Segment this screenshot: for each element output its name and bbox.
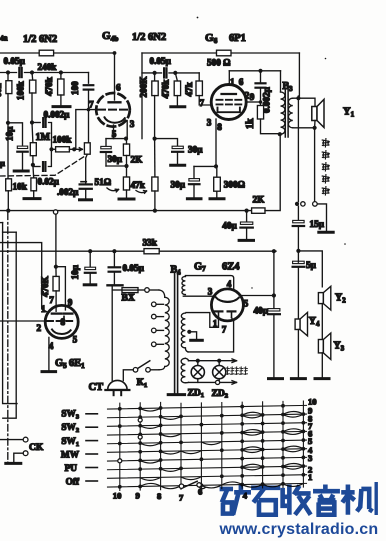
wire G5 cathode pin4	[48, 337, 50, 370]
wire left vertical b	[3, 232, 16, 418]
scan specks	[197, 17, 199, 19]
svg-text:0.02μ: 0.02μ	[38, 176, 60, 186]
resistor 470k (middle)	[175, 73, 177, 81]
wire top rail right segment	[142, 52, 299, 54]
svg-text:0.05μ: 0.05μ	[4, 56, 26, 66]
wire cathode net top	[106, 138, 127, 140]
svg-text:MW: MW	[61, 451, 80, 461]
6.3V winding	[181, 313, 185, 348]
svg-text:47k: 47k	[184, 81, 194, 96]
capacitor 30u-b	[172, 146, 183, 148]
op-amp G5 6E1 tuning indicator	[45, 305, 78, 338]
wire cathode net bottom	[106, 165, 127, 167]
svg-text:6Z4: 6Z4	[222, 262, 240, 273]
svg-text:47k: 47k	[131, 180, 146, 190]
watermark logo: blue CJK characters (drawn strokes)	[220, 485, 373, 515]
svg-text:4a: 4a	[0, 34, 8, 43]
resistor 10k	[7, 123, 9, 179]
wire bus B (B+ preamp)	[0, 250, 144, 252]
resistor 300 ohm	[216, 166, 218, 177]
svg-text:5: 5	[244, 299, 249, 309]
mechanical link dash-dot	[7, 213, 9, 466]
svg-text:40μ: 40μ	[254, 305, 269, 315]
resistor 100k-b	[31, 73, 34, 81]
ground CK	[6, 462, 21, 465]
svg-text:0.002μ: 0.002μ	[44, 109, 71, 119]
svg-text:200K: 200K	[139, 76, 149, 98]
svg-text:PU: PU	[65, 464, 78, 474]
ground 30u-b	[171, 164, 185, 167]
wire main right line	[298, 53, 300, 96]
svg-text:9: 9	[250, 92, 255, 102]
capacitor 5u	[293, 261, 305, 263]
ground 51 ohm	[119, 198, 134, 201]
svg-text:0.05μ: 0.05μ	[150, 56, 172, 66]
svg-text:CT: CT	[89, 382, 104, 393]
annotation: to tube heaters	[226, 367, 229, 375]
node B3 primary bottom	[278, 132, 282, 136]
dashed leader to pot	[0, 156, 85, 176]
resistor 1M	[31, 123, 34, 143]
svg-text:2: 2	[37, 323, 42, 333]
svg-text:7: 7	[200, 98, 205, 108]
ground 30u-c	[187, 197, 201, 200]
band switch matrix columns	[119, 403, 121, 490]
ground 470k	[171, 105, 185, 108]
primary taps	[152, 302, 157, 307]
ground Y2/Y3 line	[315, 377, 329, 380]
resistor 2K cathode	[123, 144, 129, 156]
svg-text:6: 6	[198, 486, 203, 496]
svg-text:1/2 6N2: 1/2 6N2	[132, 32, 166, 43]
svg-text:7: 7	[89, 100, 94, 110]
ground 40u-a	[239, 239, 253, 242]
capacitor .002u-b	[86, 154, 88, 183]
ground .002u	[80, 198, 92, 201]
svg-text:1k: 1k	[245, 118, 256, 129]
svg-text:51Ω: 51Ω	[95, 177, 112, 187]
lamp ZD1	[197, 361, 199, 366]
svg-text:3: 3	[208, 287, 213, 297]
svg-text:6: 6	[116, 82, 121, 92]
wire G4b plate drop pin6	[114, 53, 116, 100]
resistor 1k	[257, 106, 263, 120]
svg-text:5: 5	[112, 129, 117, 139]
wire B3 secondary bottom	[293, 127, 315, 129]
capacitor 0.05u line filter	[113, 251, 115, 266]
wire 6P1 cathode pins 3,8	[215, 119, 217, 166]
node screen feed	[153, 137, 157, 141]
svg-text:.002μ: .002μ	[57, 187, 79, 197]
svg-text:9: 9	[136, 491, 140, 501]
wire 6P1 plate pins 1,6	[228, 71, 230, 85]
svg-text:30μ: 30μ	[188, 145, 203, 155]
wire right rail drop	[141, 53, 143, 139]
svg-text:30μ: 30μ	[171, 179, 186, 189]
wire G5 pin2 (AVC in)	[0, 320, 45, 322]
switch K1	[159, 367, 165, 370]
capacitor 0.002u (across B3)	[260, 71, 262, 83]
resistor (cut label) far-left	[7, 73, 9, 81]
svg-text:5μ: 5μ	[306, 260, 317, 270]
band switch matrix rows	[108, 405, 307, 409]
capacitor box (paper)	[32, 165, 35, 178]
svg-text:CK: CK	[29, 443, 44, 453]
svg-text:10μ: 10μ	[70, 264, 80, 279]
svg-text:300Ω: 300Ω	[224, 179, 245, 189]
wire 6Z4 cathode output	[240, 295, 274, 297]
matrix bridge arcs	[140, 408, 160, 411]
HV secondary winding	[182, 276, 185, 294]
capacitor 0.002u-a	[30, 120, 34, 124]
svg-text:100k: 100k	[53, 135, 73, 145]
svg-text:8: 8	[61, 317, 66, 327]
resistor 33k	[144, 249, 159, 254]
node 470k-a top	[59, 70, 63, 74]
ground B4 core	[168, 393, 184, 396]
wire top rail left (B+ to G4b plate)	[0, 52, 115, 54]
ground G5	[42, 370, 56, 373]
wire HV to 6Z4 plate loop	[185, 276, 233, 290]
capacitor 40u-b	[273, 251, 275, 308]
svg-text:00k: 00k	[0, 83, 3, 97]
wire left stack y232	[3, 231, 17, 233]
svg-text:1: 1	[308, 472, 312, 482]
resistor 2K decoupling	[252, 208, 265, 213]
ground 470k-a	[53, 105, 70, 108]
capacitor 100 pF	[88, 73, 90, 84]
svg-text:6: 6	[239, 77, 244, 87]
wire G4b cathode pin3	[126, 121, 128, 139]
capacitor 30u-a	[105, 139, 107, 147]
svg-text:1/2 6N2: 1/2 6N2	[23, 34, 57, 45]
speaker Y1	[312, 107, 317, 121]
rotary wiper symbol	[179, 484, 183, 488]
wire 6Z4 heater pin1	[186, 313, 219, 328]
wire lamp bottom + arrow	[185, 381, 188, 383]
svg-text:2K: 2K	[131, 155, 144, 165]
ground 300 ohm	[210, 197, 224, 200]
resistor 470K	[53, 276, 59, 291]
annotation: external speaker (vertical)	[322, 139, 329, 147]
wire grid down from pot node	[76, 110, 96, 150]
wire G5 grid pin1	[0, 243, 47, 312]
svg-text:0.05μ: 0.05μ	[123, 263, 145, 273]
svg-text:BX: BX	[122, 294, 135, 304]
ground Y4 line	[291, 377, 305, 380]
svg-text:5: 5	[73, 335, 78, 345]
capacitor 30u-c	[193, 166, 195, 178]
plug CT	[108, 380, 127, 389]
lamp ZD2	[218, 361, 220, 366]
matrix open contacts	[118, 459, 122, 463]
jack CK	[0, 439, 23, 441]
wire to Y2/Y3 column	[298, 251, 322, 287]
potentiometer (volume) with wiper arrow	[84, 143, 90, 154]
node 470K top	[54, 265, 58, 269]
pilot lamp winding	[181, 358, 185, 383]
tap connector on bus A	[53, 210, 57, 214]
svg-text:470k: 470k	[161, 79, 171, 99]
node 470k top	[173, 71, 177, 75]
wire left vertical a	[0, 222, 3, 224]
wire left grid rail y72.5	[0, 72, 17, 74]
speaker Y3	[318, 340, 323, 353]
svg-text:Off: Off	[66, 478, 80, 488]
wire bus A (AVC line)	[0, 210, 252, 212]
center tap ground	[187, 330, 191, 334]
resistor 51 ohm	[126, 166, 128, 177]
svg-text:30μ: 30μ	[108, 154, 123, 164]
svg-text:10: 10	[113, 490, 122, 500]
svg-text:7: 7	[49, 295, 54, 305]
svg-text:240k: 240k	[38, 62, 58, 72]
wire 6P1 screen pins 2,9	[246, 101, 260, 103]
capacitor 0.02u	[31, 163, 35, 167]
svg-text:100: 100	[70, 81, 80, 95]
resistor 47k-b	[154, 139, 156, 177]
speaker Y4	[295, 319, 300, 330]
matrix contact dots	[118, 407, 122, 411]
node left resistor top	[6, 70, 10, 74]
svg-text:8: 8	[157, 491, 162, 501]
capacitor 0.05u (left)	[18, 68, 20, 77]
resistor 100k horizontal	[49, 147, 53, 151]
capacitor 15u	[297, 206, 299, 220]
svg-text:4: 4	[227, 279, 232, 289]
node 200K top	[153, 71, 157, 75]
node G4b grid	[87, 108, 91, 112]
svg-text:10μ: 10μ	[5, 126, 15, 141]
wire speaker line to jack	[314, 128, 316, 202]
svg-text:9: 9	[68, 298, 73, 308]
speaker Y2	[318, 293, 323, 304]
svg-text:G5 6E1: G5 6E1	[55, 358, 85, 370]
svg-text:500 Ω: 500 Ω	[207, 58, 230, 68]
svg-text:μ: μ	[0, 158, 5, 168]
node 100k top	[30, 70, 34, 74]
svg-text:3: 3	[308, 453, 312, 463]
op-amp G4b 1/2 6N2 triode (dashed)	[96, 93, 130, 127]
capacitor 10u-b	[89, 251, 91, 266]
svg-text:1M: 1M	[36, 132, 51, 143]
op-amp G7 6Z4 rectifier	[211, 289, 243, 321]
svg-text:8: 8	[217, 122, 222, 132]
jack break	[295, 202, 299, 206]
jack contact (ext speaker)	[313, 202, 318, 207]
capacitor 0.05u (middle)	[163, 68, 165, 77]
capacitor 40u-a	[246, 211, 248, 222]
resistor 200K	[154, 73, 156, 81]
wire to 30u-b	[155, 139, 178, 147]
wire pin9 hook	[56, 267, 66, 310]
wire 6Z4 heater pin7	[188, 318, 234, 352]
svg-text:3: 3	[130, 119, 135, 129]
watermark vertical tick	[375, 482, 378, 515]
svg-text:7: 7	[222, 324, 227, 334]
svg-text:15μ: 15μ	[310, 219, 325, 229]
ground ext jack	[319, 231, 333, 234]
resistor 500ohm	[217, 50, 232, 56]
wire G4b cathode pin5	[113, 125, 115, 139]
resistor 470k-a	[60, 73, 62, 80]
svg-text:40μ: 40μ	[222, 220, 237, 230]
capacitor 10u + ground	[6, 121, 10, 125]
fuse BX	[122, 288, 138, 293]
wire cathode to 300ohm	[194, 165, 217, 167]
wire screen feed y73	[142, 72, 162, 74]
wire to fuse and plug	[111, 285, 113, 380]
svg-text:33k: 33k	[143, 237, 158, 247]
svg-text:10k: 10k	[13, 181, 28, 191]
ground 40u-b	[269, 377, 283, 380]
svg-text:2K: 2K	[253, 194, 266, 204]
ground 10u-b	[84, 283, 96, 286]
svg-text:www.crystalradio.cn: www.crystalradio.cn	[219, 521, 379, 538]
resistor 240k	[39, 50, 53, 56]
svg-text:7: 7	[179, 492, 184, 502]
svg-text:100k: 100k	[16, 80, 26, 100]
svg-text:3: 3	[207, 118, 212, 128]
resistor 47k (G6 grid)	[198, 73, 200, 81]
svg-text:470k: 470k	[44, 76, 54, 96]
node 5u tap	[296, 249, 300, 253]
svg-text:1: 1	[230, 77, 235, 87]
svg-text:6P1: 6P1	[229, 33, 246, 44]
wire lamp top + arrow	[185, 358, 188, 360]
op-amp G6 6P1 output pentode	[211, 85, 246, 120]
wire B3 secondary top to Y1	[293, 98, 315, 106]
ground left net	[24, 197, 40, 200]
tap circle primary top	[145, 288, 150, 293]
